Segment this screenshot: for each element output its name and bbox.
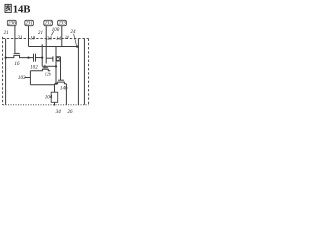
svg-text:21: 21 bbox=[38, 30, 43, 36]
svg-text:24: 24 bbox=[70, 29, 76, 35]
svg-text:103: 103 bbox=[18, 75, 26, 81]
svg-text:231: 231 bbox=[25, 21, 33, 27]
svg-text:233: 233 bbox=[58, 21, 66, 27]
svg-text:34: 34 bbox=[56, 109, 62, 115]
svg-text:236: 236 bbox=[8, 21, 16, 27]
svg-text:31: 31 bbox=[17, 35, 22, 41]
svg-text:100: 100 bbox=[52, 27, 60, 33]
svg-text:104: 104 bbox=[45, 94, 53, 100]
svg-text:232: 232 bbox=[44, 21, 52, 27]
svg-text:21: 21 bbox=[4, 30, 9, 36]
svg-text:26: 26 bbox=[67, 109, 73, 115]
svg-text:24: 24 bbox=[65, 35, 69, 39]
svg-text:14b: 14b bbox=[60, 86, 68, 92]
svg-text:102: 102 bbox=[30, 64, 38, 70]
svg-text:30: 30 bbox=[47, 36, 53, 42]
svg-text:14: 14 bbox=[56, 36, 62, 42]
svg-text:18: 18 bbox=[30, 35, 36, 41]
svg-text:14B: 14B bbox=[13, 3, 30, 15]
svg-text:12b: 12b bbox=[45, 71, 51, 76]
svg-text:16: 16 bbox=[14, 61, 20, 67]
